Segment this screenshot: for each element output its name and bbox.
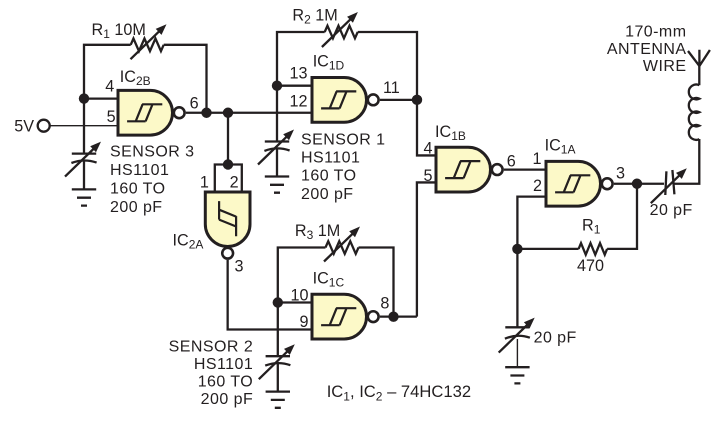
ground sensor2 [266,392,290,408]
ground sensor1 [265,177,289,193]
arrow 20pF bottom [499,318,535,353]
junction dot R1 right [201,108,211,118]
svg-text:HS1101: HS1101 [110,162,169,179]
svg-text:11: 11 [383,79,400,97]
svg-text:160 TO: 160 TO [198,374,253,391]
svg-text:6: 6 [190,95,199,113]
svg-text:1: 1 [200,173,209,191]
terminal 5V [38,120,50,132]
wire sensor2 drop [277,303,279,392]
gate IC1D [312,78,379,123]
junction dot R470 left [512,244,522,254]
wire IC1D output [380,99,417,101]
wire IC2B output to IC1D pin12 [186,112,312,114]
svg-text:4: 4 [105,78,114,96]
svg-text:5: 5 [107,108,116,126]
wire R1 feedback loop [84,45,207,113]
wire pin10 IC1C [278,301,312,303]
op-amp gate IC2B [118,90,185,135]
junction dot IC1A out [632,179,642,189]
wire to IC1B pin5 [417,182,436,316]
antenna [688,50,710,66]
svg-text:R1 10M: R1 10M [92,21,146,41]
wire 5V to pin5 [50,125,118,127]
junction dot pin13 [272,81,282,91]
svg-text:160 TO: 160 TO [110,181,165,198]
capacitor 20pF bottom [505,326,529,328]
svg-text:SENSOR 2: SENSOR 2 [169,339,254,356]
wire sensor3 drop [83,99,85,190]
svg-text:170-mm: 170-mm [625,24,686,41]
svg-text:R3 1M: R3 1M [295,222,340,242]
ground sensor3 [72,189,96,205]
gate IC2A [205,192,250,259]
svg-text:200 pF: 200 pF [301,186,354,203]
capacitor 20pF top-right left plate [665,171,666,195]
svg-text:13: 13 [289,64,307,82]
svg-text:3: 3 [235,258,244,276]
svg-text:6: 6 [507,152,516,170]
junction dot IC2A input U [223,159,233,169]
resistor R3 1M [326,241,359,254]
gate IC1B [436,147,503,192]
junction dot pin4 IC2B [79,93,89,103]
svg-text:HS1101: HS1101 [194,356,253,373]
resistor R2 arrow [322,12,358,47]
svg-text:200 pF: 200 pF [201,391,254,408]
svg-text:20 pF: 20 pF [534,329,577,346]
svg-text:SENSOR 1: SENSOR 1 [301,132,386,149]
junction dot IC2A feed [223,108,233,118]
junction dot IC1D out [412,95,422,105]
svg-text:1: 1 [532,150,541,168]
svg-text:10: 10 [290,287,308,305]
svg-text:ANTENNA: ANTENNA [607,41,687,58]
arrow 20pF top-right [651,168,687,203]
wire coil to antenna [698,65,700,85]
wire IC1B out to IC1A pin1 [504,168,546,170]
svg-text:160 TO: 160 TO [301,167,356,184]
wire IC1A output [614,183,664,185]
svg-text:3: 3 [616,164,625,182]
capacitor 20pF top-right right plate [672,170,674,194]
svg-text:200 pF: 200 pF [110,199,163,216]
ground bottom cap [505,367,529,383]
svg-text:20 pF: 20 pF [650,202,693,219]
wire IC2A feed drop [227,113,229,165]
svg-text:4: 4 [423,140,432,158]
svg-text:470: 470 [577,257,604,275]
wire R3 feedback loop [278,248,394,317]
wire IC2A input U [215,165,242,193]
svg-text:R2 1M: R2 1M [292,6,337,26]
gate IC1A [546,161,613,206]
junction dot pin10 [273,297,283,307]
svg-text:8: 8 [380,295,389,313]
wire R2 feedback loop [277,32,417,100]
svg-text:WIRE: WIRE [643,58,687,75]
wire IC1C output [380,315,417,317]
wire IC2A output to IC1C pin9 [228,260,312,330]
svg-text:12: 12 [289,92,307,110]
svg-text:2: 2 [230,173,239,191]
svg-text:5V: 5V [14,118,34,136]
gate IC1C [312,294,379,339]
wire to IC1B pin4 [417,100,436,156]
resistor R2 1M [325,26,358,39]
svg-text:5: 5 [423,167,432,185]
wire sensor1 drop [276,86,278,177]
wire pin13 IC1D [277,85,312,87]
resistor R3 arrow [324,227,360,262]
capacitor SENSOR 3 [65,142,101,177]
resistor R1 10M [131,39,164,52]
wire cap to ground [516,339,518,367]
svg-text:2: 2 [533,177,542,195]
wire R1-470 branch [517,184,637,249]
svg-text:HS1101: HS1101 [301,149,360,166]
wire pin4 IC2B [84,97,118,99]
capacitor SENSOR 1 [258,130,294,165]
junction dot IC1C out [388,311,398,321]
svg-text:SENSOR 3: SENSOR 3 [110,143,195,160]
inductor coil [689,85,700,140]
wire cap to antenna [674,139,699,184]
resistor R1 470 [579,243,608,255]
wire IC1A pin2 feed [517,197,546,328]
resistor R1 arrow [131,24,167,59]
svg-text:9: 9 [299,313,308,331]
capacitor SENSOR 2 [259,344,295,379]
